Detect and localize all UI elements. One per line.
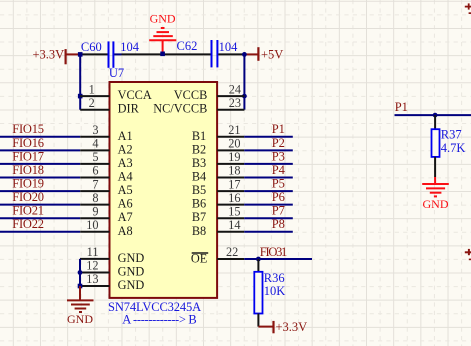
svg-text:B8: B8 [192,224,206,238]
svg-text:3: 3 [92,123,98,137]
svg-text:P4: P4 [272,163,286,177]
svg-text:FIO31: FIO31 [260,245,288,259]
svg-text:B3: B3 [192,156,206,170]
svg-text:23: 23 [229,96,241,110]
svg-text:FIO16: FIO16 [12,136,44,150]
svg-text:P1: P1 [272,122,285,136]
svg-text:10: 10 [86,218,98,232]
svg-text:+5V: +5V [261,48,283,62]
svg-text:18: 18 [228,164,240,178]
svg-text:B6: B6 [192,197,206,211]
svg-text:VCCA: VCCA [118,88,152,102]
svg-text:24: 24 [229,82,241,96]
svg-text:P1: P1 [395,100,408,114]
svg-text:B2: B2 [192,142,206,156]
svg-text:P6: P6 [272,190,285,204]
svg-text:P7: P7 [272,204,285,218]
svg-text:FIO18: FIO18 [12,163,44,177]
svg-text:7: 7 [92,177,98,191]
svg-text:OE: OE [191,252,207,266]
svg-text:21: 21 [228,123,240,137]
svg-text:14: 14 [228,218,240,232]
svg-text:FIO15: FIO15 [12,122,44,136]
svg-text:A ------------> B: A ------------> B [122,313,196,327]
svg-text:FIO20: FIO20 [12,190,44,204]
svg-text:GND: GND [423,197,449,211]
svg-text:104: 104 [120,40,140,54]
svg-text:15: 15 [228,204,240,218]
svg-text:13: 13 [86,272,98,286]
svg-text:A1: A1 [118,129,133,143]
svg-text:R37: R37 [441,128,462,142]
svg-text:20: 20 [228,137,240,151]
svg-text:22: 22 [226,245,238,259]
svg-text:GND: GND [118,278,145,292]
svg-text:+3.3V: +3.3V [276,320,308,334]
svg-text:FIO19: FIO19 [12,177,44,191]
svg-text:P3: P3 [272,149,285,163]
svg-text:B7: B7 [192,210,206,224]
svg-text:A7: A7 [118,210,133,224]
svg-text:8: 8 [92,191,98,205]
svg-text:GND: GND [118,265,145,279]
svg-text:P8: P8 [272,217,285,231]
svg-text:104: 104 [219,40,239,54]
svg-text:A8: A8 [118,224,133,238]
svg-text:12: 12 [86,259,98,273]
svg-text:A5: A5 [118,183,133,197]
svg-text:B5: B5 [192,183,206,197]
svg-text:GND: GND [67,312,93,326]
svg-text:C60: C60 [81,40,102,54]
svg-text:4.7K: 4.7K [441,141,466,155]
svg-text:4: 4 [92,137,98,151]
svg-text:16: 16 [228,191,240,205]
svg-text:NC/VCCB: NC/VCCB [153,102,207,116]
svg-text:P2: P2 [272,136,285,150]
svg-text:P5: P5 [272,177,285,191]
svg-text:2: 2 [89,96,95,110]
svg-text:B1: B1 [192,129,206,143]
svg-text:U7: U7 [109,66,124,80]
svg-text:GND: GND [118,251,145,265]
svg-text:FIO22: FIO22 [12,217,44,231]
svg-text:1: 1 [89,82,95,96]
svg-text:A4: A4 [118,170,133,184]
svg-text:R36: R36 [264,271,285,285]
svg-text:+3.3V: +3.3V [33,47,65,61]
svg-text:A2: A2 [118,142,133,156]
svg-text:A3: A3 [118,156,133,170]
svg-text:DIR: DIR [118,102,140,116]
svg-text:FIO17: FIO17 [12,149,44,163]
svg-text:19: 19 [228,150,240,164]
svg-text:5: 5 [92,150,98,164]
svg-text:9: 9 [92,204,98,218]
svg-text:C62: C62 [177,39,198,53]
svg-text:GND: GND [150,11,176,25]
svg-text:VCCB: VCCB [174,88,208,102]
svg-text:A6: A6 [118,197,133,211]
svg-text:10K: 10K [264,284,286,298]
svg-text:17: 17 [228,177,240,191]
svg-text:B4: B4 [192,170,206,184]
svg-text:FIO21: FIO21 [12,204,44,218]
svg-text:6: 6 [92,164,98,178]
svg-text:11: 11 [87,245,99,259]
